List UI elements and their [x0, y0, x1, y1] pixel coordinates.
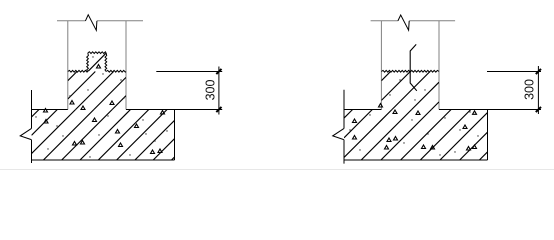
- dimension tick (top): [216, 69, 221, 74]
- aggregate dots: [349, 79, 478, 155]
- footing bottom edge: [32, 159, 175, 161]
- roughened construction joint line: [381, 70, 439, 72]
- footing top-left edge: [32, 109, 68, 111]
- footing edge break symbol: [20, 129, 31, 140]
- footing right edge: [174, 110, 176, 161]
- footing bottom edge: [344, 159, 488, 161]
- page rule (faint): [0, 169, 554, 171]
- wall left face line: [380, 21, 382, 110]
- dimension tick (bottom): [536, 107, 541, 112]
- footing step edge + dimension extension (right): [439, 109, 541, 111]
- dimension tick (bottom): [216, 107, 221, 112]
- footing edge break symbol: [333, 129, 344, 140]
- keyway bump outline (roughened): [87, 53, 89, 72]
- bump diagonal: [88, 53, 106, 71]
- wall top edge line (gray, broken): [57, 20, 143, 22]
- footing step edge + dimension extension (right): [126, 109, 222, 111]
- footing left edge (lower): [343, 140, 345, 164]
- concrete hatch (45deg): [32, 53, 175, 160]
- wall left face line: [67, 21, 69, 110]
- dimension tick (top): [536, 69, 541, 74]
- dimension line (vertical): [218, 67, 220, 115]
- svg-text:300: 300: [523, 79, 537, 100]
- footing left edge (lower): [31, 140, 33, 163]
- aggregate dots: [35, 56, 167, 157]
- dowel bar with hooked ends: [410, 44, 417, 90]
- footing left edge (upper): [31, 90, 33, 129]
- aggregate triangles: [353, 104, 477, 151]
- footing right edge: [487, 110, 489, 161]
- svg-text:300: 300: [204, 80, 218, 101]
- dimension extension line (top): [487, 71, 541, 73]
- dimension line (vertical): [537, 66, 539, 114]
- wall break symbol (top): [398, 15, 409, 30]
- wall right face line: [438, 21, 440, 110]
- roughened construction joint line: [68, 70, 88, 72]
- footing top-left edge: [344, 109, 381, 111]
- footing left edge (upper): [343, 90, 345, 129]
- wall top edge line (gray, broken): [371, 20, 456, 22]
- wall break symbol (top): [85, 15, 97, 30]
- aggregate triangles: [44, 65, 165, 154]
- wall right face line: [125, 21, 127, 110]
- concrete hatch (45deg): [344, 72, 488, 161]
- dimension extension line (top): [156, 71, 222, 73]
